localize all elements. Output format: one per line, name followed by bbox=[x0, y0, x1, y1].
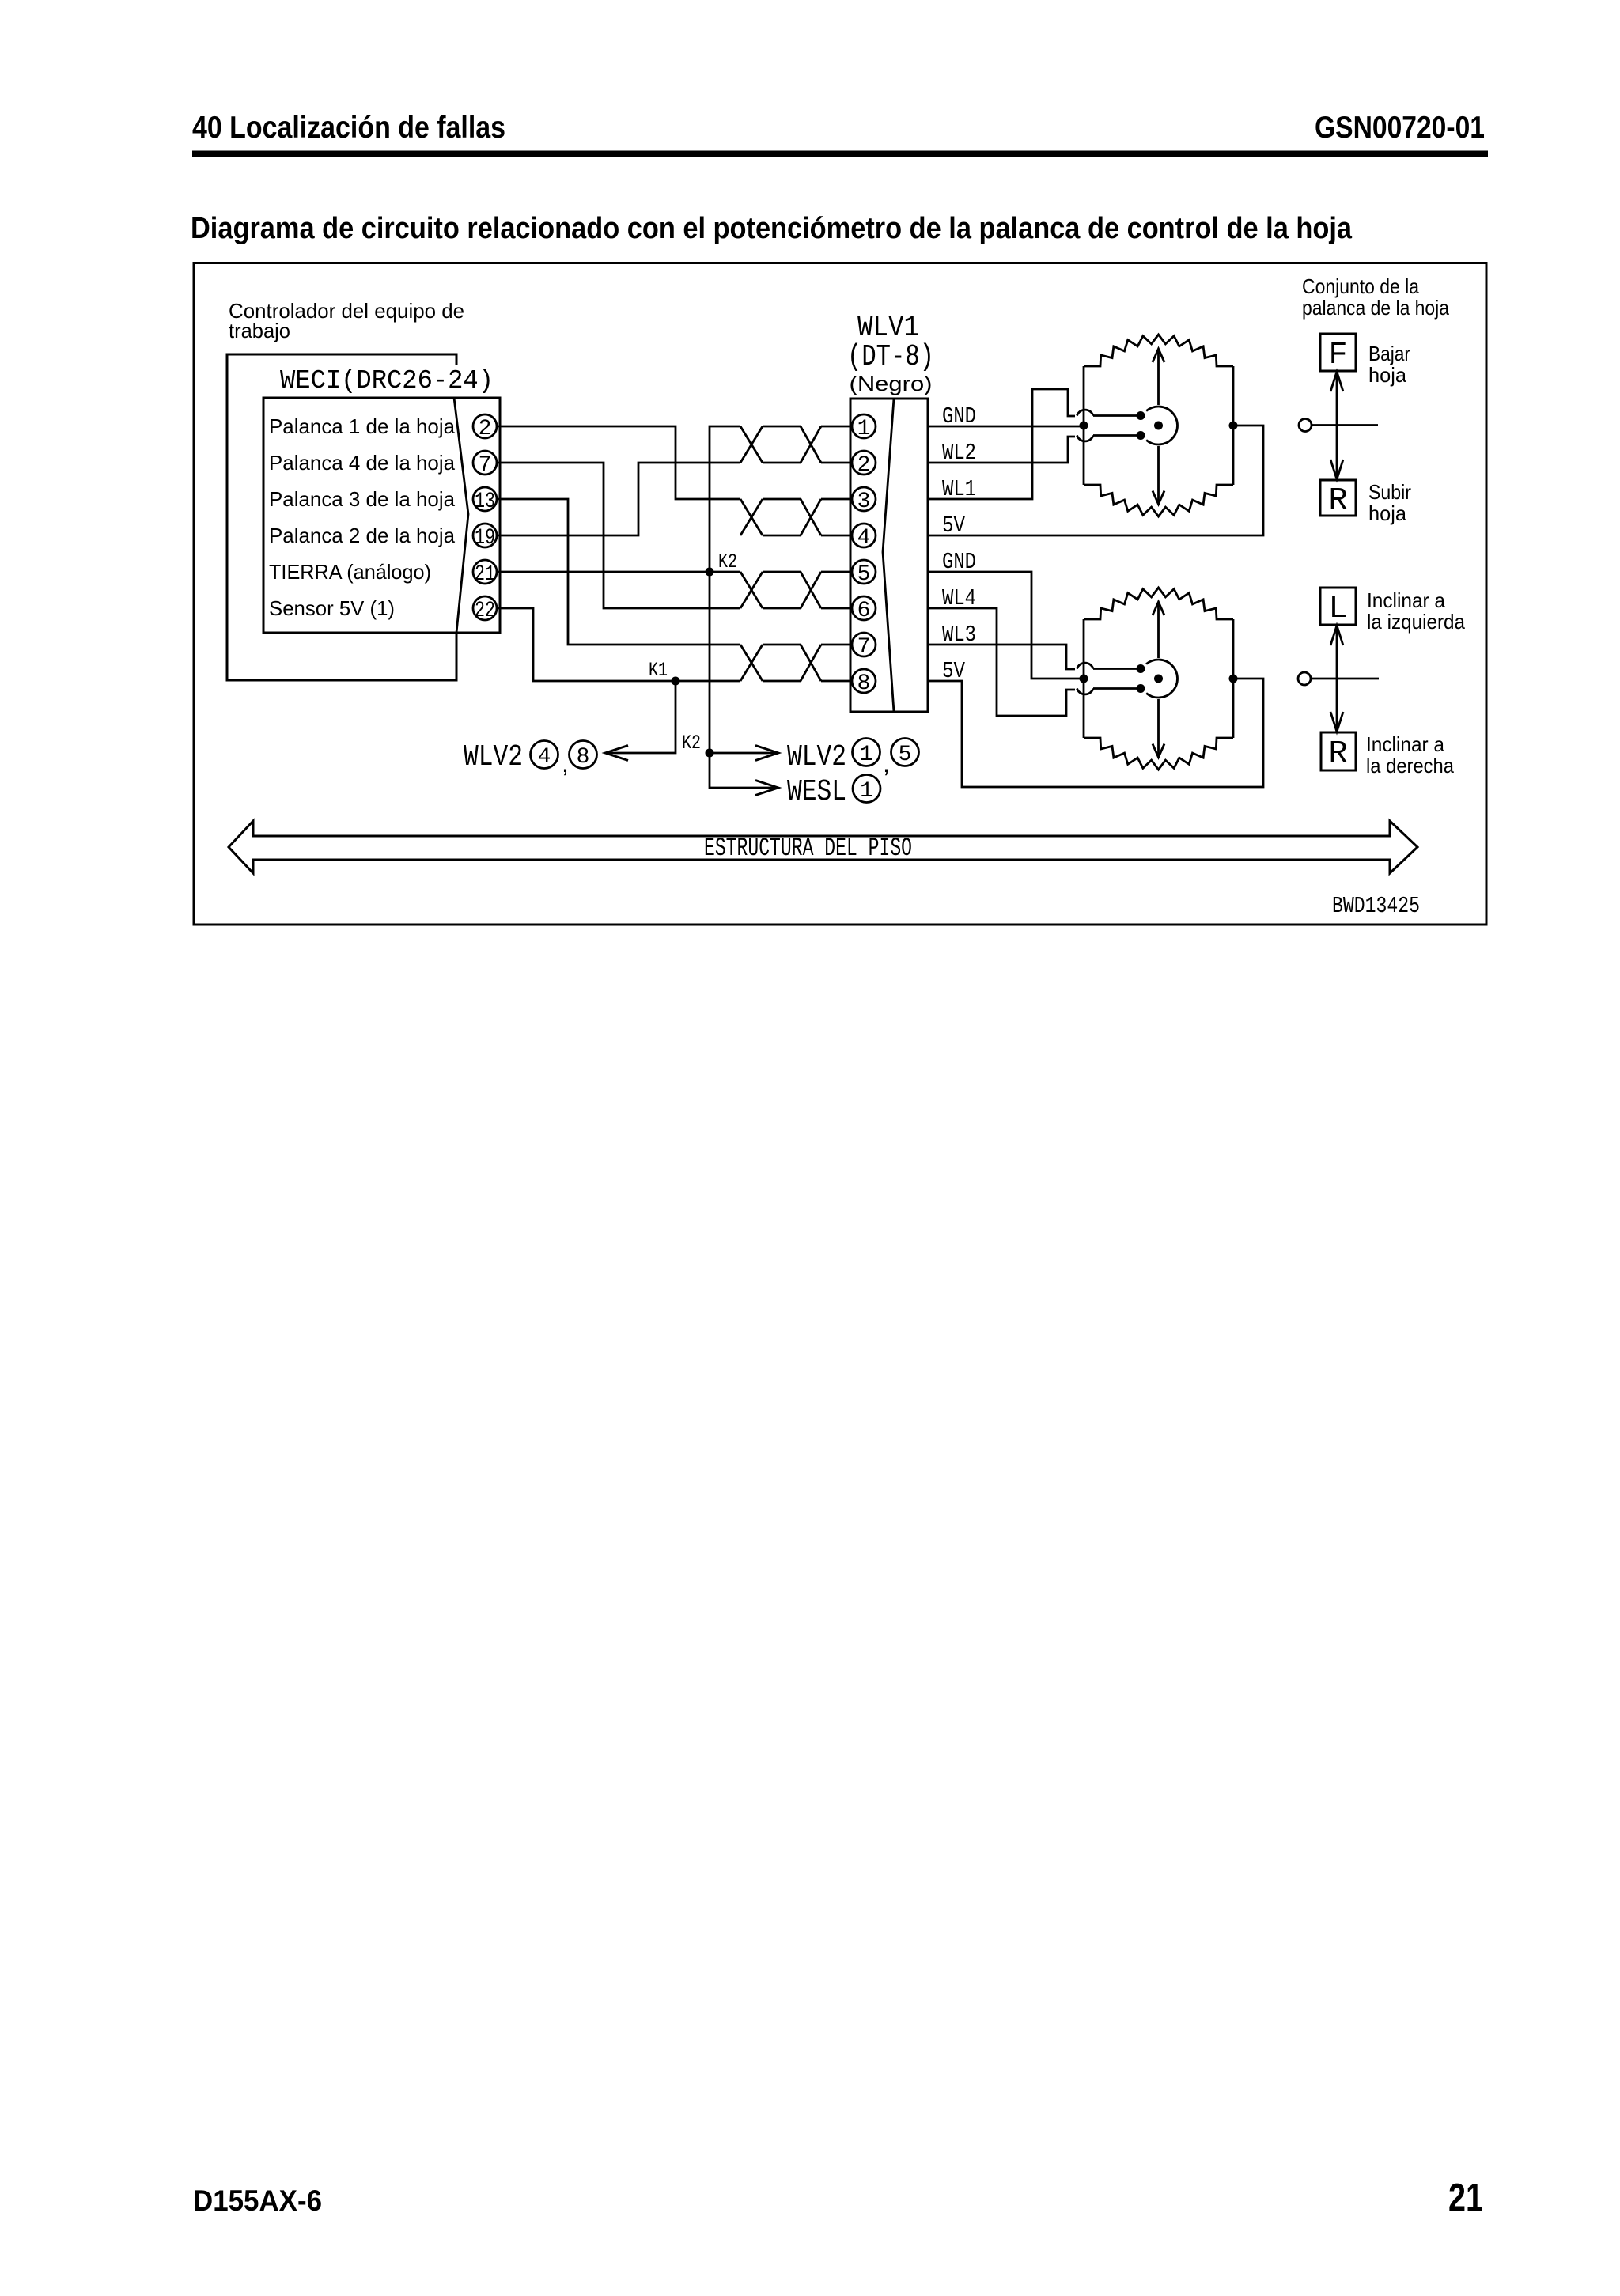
svg-text:L: L bbox=[1328, 592, 1347, 627]
floor structure double arrow (ESTRUCTURA DEL PISO) bbox=[229, 821, 1417, 873]
svg-text:la izquierda: la izquierda bbox=[1367, 610, 1465, 634]
svg-text:palanca de la hoja: palanca de la hoja bbox=[1302, 296, 1449, 320]
lever stroke double arrow F-R bbox=[1330, 372, 1343, 479]
potentiometer P1 (blade raise/lower) resistor ring bbox=[1084, 335, 1233, 516]
svg-text:R: R bbox=[1328, 736, 1347, 772]
wire: Palanca 1 (pin 2) to WL1 row bbox=[497, 426, 740, 499]
svg-text:40 Localización de fallas: 40 Localización de fallas bbox=[192, 111, 505, 145]
header rule bbox=[192, 151, 1488, 157]
svg-text:8: 8 bbox=[857, 671, 871, 696]
svg-text:Palanca 3 de la hoja: Palanca 3 de la hoja bbox=[269, 487, 456, 511]
switch box F bbox=[1320, 334, 1356, 371]
svg-text:2: 2 bbox=[479, 417, 492, 441]
WECI pin 7 bbox=[473, 451, 497, 478]
WECI pin 2 bbox=[473, 414, 497, 441]
label WLV2 (left) with circled pins 4,8 bbox=[464, 740, 597, 777]
svg-text:6: 6 bbox=[857, 599, 871, 623]
wire: Palanca 4 (pin 7) to WL4 row bbox=[497, 463, 740, 608]
svg-text:Palanca 2 de la hoja: Palanca 2 de la hoja bbox=[269, 524, 456, 547]
lever link line (upper) bbox=[1312, 424, 1378, 426]
WLV1 pin 6 bbox=[852, 596, 876, 623]
potentiometer P2 (blade tilt) resistor ring bbox=[1084, 588, 1233, 770]
wire: K1 branch down to WLV2 4,8 arrow bbox=[605, 681, 676, 753]
wire: Palanca 2 (pin 19) to WL2 row bbox=[497, 463, 740, 535]
wire: GND (pin 5) to lower pot left tap bbox=[928, 572, 1084, 679]
potentiometer P1 (blade raise/lower) wiper arrow bbox=[1153, 349, 1164, 505]
WLV1 pin 8 bbox=[852, 669, 876, 696]
twisted pair wires into pins 3/4 bbox=[740, 499, 852, 535]
label: Bajar hoja bbox=[1368, 342, 1410, 387]
svg-text:(DT-8): (DT-8) bbox=[847, 340, 934, 374]
node K1 junction dot bbox=[672, 677, 680, 686]
svg-text:F: F bbox=[1328, 338, 1347, 373]
WECI pin 19 bbox=[473, 524, 497, 550]
arrowhead toward WLV2 4,8 bbox=[605, 746, 628, 761]
svg-text:,: , bbox=[883, 749, 890, 777]
WLV1 pin 3 bbox=[852, 487, 876, 514]
svg-text:5: 5 bbox=[857, 562, 871, 587]
wire: WL4 (pin 6) to lower pot lower prong bbox=[928, 608, 1075, 716]
svg-text:1: 1 bbox=[860, 743, 873, 767]
svg-text:K1: K1 bbox=[649, 659, 668, 682]
svg-text:K2: K2 bbox=[682, 732, 701, 755]
label: Conjunto de la palanca de la hoja bbox=[1302, 274, 1449, 320]
potentiometer P2 (blade tilt) wiper contact prongs bbox=[1093, 664, 1145, 693]
svg-text:TIERRA (análogo): TIERRA (análogo) bbox=[269, 560, 431, 584]
svg-text:7: 7 bbox=[479, 453, 492, 478]
svg-text:Inclinar a: Inclinar a bbox=[1366, 732, 1445, 756]
twisted pair wires into pins 1/2 bbox=[740, 426, 852, 463]
svg-text:1: 1 bbox=[860, 779, 873, 804]
lever stroke double arrow L-R bbox=[1330, 626, 1343, 732]
wire: 5V (pin 8) to lower pot right tap bbox=[928, 679, 1263, 787]
WECI pin 21 bbox=[473, 560, 497, 587]
svg-text:la derecha: la derecha bbox=[1366, 754, 1454, 777]
wire: WL3 (pin 7) to lower pot upper prong bbox=[928, 645, 1075, 669]
svg-text:5: 5 bbox=[899, 743, 912, 767]
wire: Sensor 5V (pin 22) to 5V row via node K1 bbox=[497, 608, 740, 681]
svg-text:7: 7 bbox=[857, 635, 871, 660]
potentiometer P1 (blade raise/lower) wire hop arcs over left ring line bbox=[1077, 410, 1094, 441]
svg-text:21: 21 bbox=[475, 562, 495, 587]
twisted pair wires into pins 5/6 bbox=[740, 572, 852, 608]
wire: WL1 (pin 3) to upper pot upper prong bbox=[928, 389, 1075, 499]
svg-text:Conjunto de la: Conjunto de la bbox=[1302, 274, 1419, 298]
svg-text:WECI(DRC26-24): WECI(DRC26-24) bbox=[280, 366, 494, 395]
arrowhead toward WLV2 1,5 bbox=[755, 746, 778, 761]
svg-text:BWD13425: BWD13425 bbox=[1332, 893, 1420, 919]
wire: GND (pin 1) to upper pot left tap bbox=[928, 426, 1084, 428]
switch box L bbox=[1320, 588, 1356, 625]
svg-text:ESTRUCTURA DEL PISO: ESTRUCTURA DEL PISO bbox=[704, 834, 912, 863]
svg-text:WLV2: WLV2 bbox=[787, 740, 846, 774]
svg-text:(Negro): (Negro) bbox=[850, 372, 933, 395]
switch box R (derecha) bbox=[1321, 732, 1356, 770]
connector WLV1 title bbox=[847, 311, 934, 374]
svg-text:1: 1 bbox=[857, 417, 871, 441]
lever link line (lower) bbox=[1311, 678, 1379, 680]
potentiometer P2 (blade tilt) end taps (junction dots) bbox=[1080, 675, 1238, 683]
svg-text:8: 8 bbox=[577, 745, 590, 770]
connector WLV1 wedge divider bbox=[883, 399, 894, 712]
connector WLV1 box bbox=[850, 399, 928, 712]
wire: WL2 (pin 2) to upper pot lower prong bbox=[928, 437, 1075, 463]
WLV1 pin 2 bbox=[852, 451, 876, 478]
svg-text:WESL: WESL bbox=[787, 775, 846, 809]
svg-text:4: 4 bbox=[538, 745, 551, 770]
svg-text:Sensor 5V (1): Sensor 5V (1) bbox=[269, 596, 395, 620]
svg-text:19: 19 bbox=[475, 526, 495, 550]
potentiometer P2 (blade tilt) wiper arrow bbox=[1153, 602, 1164, 758]
svg-text:2: 2 bbox=[857, 453, 871, 478]
diagram border frame bbox=[194, 263, 1486, 925]
svg-text:hoja: hoja bbox=[1368, 501, 1407, 525]
svg-text:trabajo: trabajo bbox=[229, 319, 290, 342]
switch box R (subir) bbox=[1320, 480, 1356, 516]
svg-text:GSN00720-01: GSN00720-01 bbox=[1315, 111, 1485, 145]
label: Controlador del equipo de trabajo bbox=[229, 299, 464, 342]
svg-text:13: 13 bbox=[475, 490, 495, 514]
svg-text:WLV2: WLV2 bbox=[464, 740, 523, 774]
svg-text:Inclinar a: Inclinar a bbox=[1367, 588, 1446, 612]
WLV1 pin 7 bbox=[852, 633, 876, 660]
wire: TIERRA (pin 21) to GND rows via node K2 bbox=[497, 571, 740, 573]
potentiometer P1 (blade raise/lower) wiper contact prongs bbox=[1093, 411, 1145, 440]
potentiometer P2 (blade tilt) wire hop arcs over left ring line bbox=[1077, 663, 1094, 694]
lever pivot circle (lower) bbox=[1298, 672, 1311, 685]
wire: K2 vertical branch to pin 1 GND and down to shield arrows bbox=[710, 426, 778, 788]
controller WECI outer box bbox=[227, 354, 456, 680]
connector WECI box bbox=[263, 398, 500, 633]
wire: Palanca 3 (pin 13) to WL3 row bbox=[497, 499, 740, 645]
arrowhead toward WESL 1 bbox=[755, 781, 778, 796]
connector WECI wedge divider bbox=[454, 398, 468, 633]
potentiometer P1 (blade raise/lower) end taps (junction dots) bbox=[1080, 422, 1238, 430]
label: Subir hoja bbox=[1368, 480, 1411, 525]
svg-text:D155AX-6: D155AX-6 bbox=[193, 2184, 322, 2217]
WLV1 pin 4 bbox=[852, 524, 876, 550]
lever pivot circle (upper) bbox=[1299, 419, 1312, 432]
wire: 5V (pin 4) to upper pot right tap bbox=[928, 426, 1263, 535]
wire: K2 branch right to WLV2 1,5 arrow bbox=[710, 752, 778, 755]
svg-text:Palanca 1 de la hoja: Palanca 1 de la hoja bbox=[269, 414, 456, 438]
potentiometer P2 (blade tilt) wiper hub bbox=[1146, 660, 1177, 698]
svg-text:4: 4 bbox=[857, 526, 871, 550]
svg-text:Palanca 4 de la hoja: Palanca 4 de la hoja bbox=[269, 451, 456, 475]
WECI pin 13 bbox=[473, 487, 497, 514]
svg-text:Diagrama de circuito relaciona: Diagrama de circuito relacionado con el … bbox=[191, 212, 1353, 245]
svg-text:21: 21 bbox=[1448, 2177, 1483, 2219]
svg-text:Subir: Subir bbox=[1368, 480, 1411, 504]
svg-text:3: 3 bbox=[857, 490, 871, 514]
svg-text:K2: K2 bbox=[718, 550, 737, 573]
WLV1 pin 5 bbox=[852, 560, 876, 587]
label WESL with circled pin 1 bbox=[787, 775, 880, 810]
WECI pin 22 bbox=[473, 596, 497, 623]
svg-text:Bajar: Bajar bbox=[1368, 342, 1410, 365]
svg-text:hoja: hoja bbox=[1368, 363, 1407, 387]
node K2 lower junction dot bbox=[706, 749, 714, 758]
potentiometer P1 (blade raise/lower) wiper hub bbox=[1146, 407, 1177, 444]
svg-text:22: 22 bbox=[475, 599, 495, 623]
WLV1 pin 1 bbox=[852, 414, 876, 441]
node K2 junction dot on TIERRA wire bbox=[706, 568, 714, 577]
label WLV2 (right) with circled pins 1,5 bbox=[787, 739, 919, 778]
svg-text:R: R bbox=[1328, 483, 1347, 519]
twisted pair wires into pins 7/8 bbox=[740, 645, 852, 681]
svg-text:,: , bbox=[562, 749, 569, 777]
label: Inclinar a la derecha bbox=[1366, 732, 1454, 777]
label: Inclinar a la izquierda bbox=[1367, 588, 1465, 634]
